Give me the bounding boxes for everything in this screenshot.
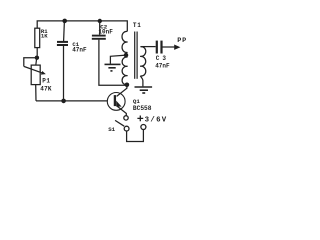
wire C3 to PP arrow bbox=[162, 46, 175, 48]
capacitor C3 plates bbox=[156, 41, 158, 54]
label +3/6V battery bbox=[137, 116, 143, 122]
wire bottom base rail bbox=[36, 100, 108, 102]
wire battery U link bbox=[127, 130, 144, 142]
switch S1 top contact circle bbox=[124, 116, 128, 120]
switch S1 lever bbox=[115, 120, 124, 126]
svg-text:BC558: BC558 bbox=[133, 105, 152, 112]
svg-text:P1: P1 bbox=[42, 78, 50, 85]
wire C2 drop bbox=[99, 21, 101, 35]
svg-text:S1: S1 bbox=[108, 126, 115, 133]
switch S1 bottom contact circle bbox=[124, 126, 129, 131]
transistor Q1 base bar bbox=[114, 95, 116, 106]
wire R1 bottom to junction bbox=[36, 48, 38, 56]
potentiometer P1 wiper arrow bbox=[24, 66, 43, 73]
wire P1 bottom to base rail bbox=[35, 85, 37, 101]
svg-text:PP: PP bbox=[177, 37, 187, 45]
svg-text:47nF: 47nF bbox=[72, 47, 87, 54]
wire secondary bottom to ground bbox=[140, 76, 143, 87]
svg-text:Q1: Q1 bbox=[133, 98, 140, 105]
capacitor C2 plates bbox=[92, 35, 106, 37]
potentiometer P1 body bbox=[31, 65, 40, 85]
battery terminal circle bbox=[141, 125, 146, 130]
wire C2 bottom down and right to collector node bbox=[99, 40, 127, 86]
capacitor C1 plates bbox=[57, 41, 68, 43]
wire P1 top terminal bbox=[35, 58, 38, 65]
wire C1 bottom bbox=[63, 46, 65, 101]
terminal PP arrowhead bbox=[174, 45, 180, 50]
node primary tap dot bbox=[124, 53, 129, 58]
transistor Q1 circle bbox=[107, 93, 125, 111]
svg-text:C3: C3 bbox=[156, 55, 169, 62]
wire secondary top to C3 bbox=[141, 46, 156, 48]
wire top rail bbox=[37, 21, 127, 32]
ground GND2 bars bbox=[135, 86, 153, 88]
transformer T1 primary winding bbox=[122, 31, 128, 84]
transformer T1 core bbox=[134, 32, 136, 79]
svg-text:1K: 1K bbox=[41, 33, 48, 40]
svg-text:T1: T1 bbox=[133, 22, 142, 29]
node junction dot R1/P1/wiper bbox=[35, 56, 39, 60]
ground GND1 bars bbox=[105, 63, 121, 65]
wire C1 drop from rail bbox=[63, 21, 66, 41]
svg-text:47nF: 47nF bbox=[155, 62, 170, 69]
transformer T1 secondary winding bbox=[140, 47, 146, 76]
node junction dot C2-rail bbox=[98, 19, 102, 23]
node collector junction dot bbox=[125, 83, 130, 88]
wire Q1 emitter with arrow bbox=[117, 106, 127, 116]
svg-text:47K: 47K bbox=[40, 86, 52, 93]
node junction dot C1-rail bbox=[62, 19, 67, 24]
wire Q1 collector bbox=[117, 85, 127, 97]
svg-text:10nF: 10nF bbox=[98, 29, 113, 36]
svg-text:3/6V: 3/6V bbox=[145, 116, 168, 124]
resistor R1 body bbox=[35, 28, 40, 47]
wire ground stem to tap bbox=[110, 55, 124, 64]
node junction dot C1 bottom bbox=[61, 99, 66, 104]
wire P1 wiper loop bbox=[24, 58, 37, 67]
